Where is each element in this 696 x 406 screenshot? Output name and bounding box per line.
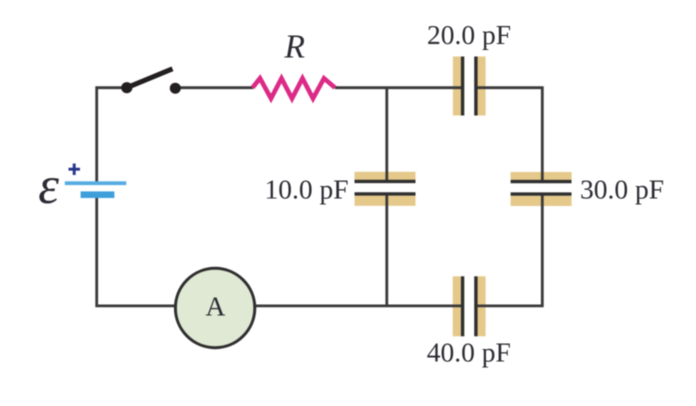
svg-text:R: R: [284, 29, 305, 66]
switch left dot: [121, 82, 132, 93]
capacitor C 30.0 pF : tan bottom: [511, 196, 572, 206]
resistor R zigzag: [253, 78, 336, 98]
capacitor C 10.0 pF : bottom plate: [355, 192, 416, 195]
switch arm: [127, 69, 173, 88]
wire top-left: left corner to switch left dot: [97, 88, 127, 182]
svg-text:40.0 pF: 40.0 pF: [427, 337, 511, 368]
capacitor C 10.0 pF : tan top: [355, 172, 416, 180]
wire top-right: 20pF right plate to right corner, down to 30pF: [477, 88, 542, 181]
wire middle vertical lower: 10pF to bottom wire: [385, 195, 388, 306]
capacitor C 10.0 pF : top plate: [355, 180, 416, 183]
capacitor C 30.0 pF : top plate: [511, 180, 572, 183]
battery emf source: bottom plate: [81, 191, 115, 198]
wire right: 30pF bottom to bottom-right corner to 40pF right plate: [477, 195, 542, 306]
battery plus sign: [69, 164, 81, 176]
switch right dot: [170, 83, 181, 94]
wire top: resistor to 20pF left plate: [335, 86, 462, 89]
svg-text:10.0 pF: 10.0 pF: [265, 174, 349, 205]
wire bottom-left: ammeter left to left corner up to battery bottom: [97, 196, 175, 306]
capacitor C 10.0 pF : tan bottom: [355, 196, 416, 206]
ammeter A circle: [175, 268, 254, 347]
capacitor C 20.0 pF : tan left: [453, 57, 461, 116]
capacitor C 20.0 pF : left plate: [461, 57, 464, 116]
capacitor C 40.0 pF : tan right: [477, 276, 485, 336]
capacitor C 20.0 pF : right plate: [474, 57, 477, 116]
capacitor C 40.0 pF : left plate: [461, 276, 464, 336]
capacitor C 30.0 pF : tan top: [511, 172, 572, 180]
wire middle vertical upper: top wire to 10pF: [385, 88, 388, 181]
capacitor C 40.0 pF : tan left: [453, 276, 461, 336]
wire bottom: 40pF left plate to ammeter right: [255, 304, 462, 307]
wire top: switch right dot to resistor: [175, 86, 253, 89]
capacitor C 20.0 pF : tan right: [477, 57, 485, 116]
svg-text:ε: ε: [38, 157, 59, 215]
capacitor C 30.0 pF : bottom plate: [511, 192, 572, 195]
svg-text:A: A: [206, 291, 226, 322]
svg-text:30.0 pF: 30.0 pF: [580, 174, 664, 205]
capacitor C 40.0 pF : right plate: [474, 276, 477, 336]
svg-text:20.0 pF: 20.0 pF: [427, 19, 511, 50]
battery emf source: top plate: [65, 181, 127, 185]
